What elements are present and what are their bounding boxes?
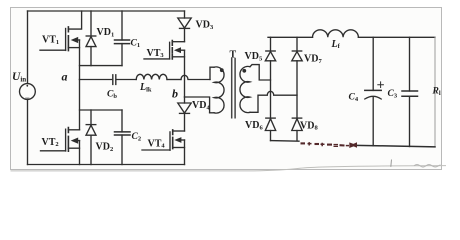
wire primary top lead bbox=[210, 67, 214, 79]
wire node b to transformer primary bottom bbox=[185, 97, 210, 113]
wire left rail lower bbox=[27, 99, 29, 164]
watermark red dashes over bottom rail bbox=[301, 142, 358, 148]
diode VD5 bbox=[265, 51, 275, 61]
label VT2 bbox=[42, 137, 59, 148]
wire VT4 source spine to bottom rail bbox=[184, 140, 186, 165]
diode VD7 bbox=[292, 51, 302, 61]
label C1 bbox=[131, 39, 141, 49]
capacitor C1 bbox=[115, 11, 130, 66]
wire node a to Cb bbox=[80, 79, 112, 81]
rectifier left leg wire bbox=[270, 37, 272, 140]
capacitor C2 bbox=[115, 110, 131, 165]
svg-text:a: a bbox=[62, 70, 68, 84]
label VD7 bbox=[304, 54, 322, 65]
label Cb bbox=[107, 90, 117, 100]
label VD4 bbox=[192, 100, 210, 111]
scan bottom edge shadow bbox=[11, 160, 447, 171]
wire VT3 source spine to node b bbox=[184, 50, 186, 97]
wire bottom rail primary bbox=[28, 164, 185, 166]
transformer T primary winding bbox=[210, 67, 224, 113]
transistor VT1 bbox=[40, 11, 82, 51]
capacitor Cb bbox=[113, 75, 136, 85]
transformer T secondary winding bbox=[240, 66, 250, 112]
wire VT1 source spine to node a bbox=[79, 40, 81, 80]
diode VD8 bbox=[292, 118, 302, 130]
label VD8 bbox=[300, 120, 318, 131]
load RL line bbox=[434, 37, 436, 147]
label VD5 bbox=[245, 51, 263, 62]
label C2 bbox=[132, 132, 142, 142]
node b bbox=[172, 87, 178, 101]
wire left rail upper bbox=[27, 11, 29, 84]
wire link VT1-source to VD1,C1 bottoms bbox=[80, 65, 123, 67]
label Lf bbox=[331, 39, 341, 50]
rectifier right leg wire bbox=[296, 37, 298, 140]
diode VD1 bbox=[86, 11, 96, 66]
label C4 bbox=[349, 93, 359, 103]
transistor VT2 bbox=[41, 128, 80, 152]
wire output bottom rail right part bbox=[357, 145, 436, 146]
label VD1 bbox=[97, 27, 115, 38]
label VT4 bbox=[148, 138, 166, 149]
label VD2 bbox=[96, 142, 114, 153]
label C3 bbox=[388, 89, 398, 99]
wire secondary top lead to rectifier bbox=[250, 65, 271, 80]
wire secondary bottom lead to rectifier (hop over left leg) bbox=[250, 91, 297, 112]
capacitor C4 (electrolytic) bbox=[365, 37, 384, 146]
capacitor C3 bbox=[402, 37, 418, 146]
transistor VT3 bbox=[144, 41, 185, 59]
label VD3 bbox=[196, 20, 214, 31]
wire output top rail left part bbox=[268, 36, 313, 38]
label T bbox=[230, 50, 237, 61]
secondary polarity dot bbox=[242, 69, 246, 73]
source U_in bbox=[20, 84, 36, 100]
diode VD4 bbox=[178, 97, 191, 131]
wire a-rail down to VT2 drain bbox=[79, 80, 81, 130]
inductor Llk bbox=[136, 74, 181, 79]
wire output bottom rail left part bbox=[271, 140, 300, 143]
wire output top rail right part bbox=[358, 36, 435, 38]
wire hop over right leg bbox=[181, 75, 210, 79]
inductor Lf bbox=[313, 30, 359, 38]
svg-text:b: b bbox=[172, 87, 178, 101]
diode VD2 bbox=[86, 110, 96, 165]
transistor VT4 bbox=[142, 130, 185, 150]
label Llk bbox=[139, 82, 152, 93]
wire link a-rail to VD2,C2 tops bbox=[80, 109, 123, 111]
transformer core bbox=[232, 59, 235, 118]
label VT1 bbox=[42, 35, 59, 46]
diode VD6 bbox=[265, 118, 275, 130]
label VT3 bbox=[147, 48, 165, 59]
wire VT2 source spine to bottom rail bbox=[79, 141, 81, 165]
wire top rail bbox=[28, 10, 185, 12]
label RL bbox=[432, 87, 441, 97]
primary polarity dot bbox=[220, 68, 224, 72]
node a bbox=[62, 70, 68, 84]
label VD6 bbox=[245, 120, 263, 131]
diode VD3 bbox=[178, 11, 191, 42]
label U_in bbox=[12, 71, 26, 84]
